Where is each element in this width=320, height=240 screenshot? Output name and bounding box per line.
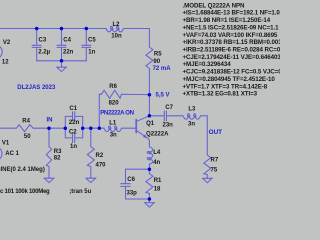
wire L1 to Q1 base bbox=[122, 127, 136, 129]
svg-text:470: 470 bbox=[96, 162, 107, 168]
svg-text:50: 50 bbox=[24, 134, 31, 140]
resistor R7 bbox=[204, 155, 211, 178]
svg-text:+CJE=2.179424E-11 VJE=0.646403: +CJE=2.179424E-11 VJE=0.6464035 bbox=[183, 54, 281, 61]
capacitor C1 (upper branch) bbox=[65, 116, 72, 128]
model directive text block bbox=[183, 2, 293, 97]
svg-text:L1: L1 bbox=[109, 120, 117, 126]
capacitor C6 with branch wires bbox=[126, 169, 150, 183]
resistor R1 bbox=[148, 169, 150, 173]
wire R4 to C1C2 block bbox=[33, 127, 65, 129]
svg-text:C5: C5 bbox=[88, 37, 96, 43]
wire L3 to OUT corner bbox=[201, 116, 208, 155]
svg-text:82: 82 bbox=[54, 155, 61, 161]
svg-text:R4: R4 bbox=[22, 119, 30, 125]
ground under R3 bbox=[44, 178, 54, 182]
svg-text:R6: R6 bbox=[109, 84, 117, 90]
svg-text:DL2JAS 2023: DL2JAS 2023 bbox=[17, 85, 56, 91]
capacitor C7 bbox=[149, 115, 163, 117]
svg-text:C2: C2 bbox=[69, 130, 77, 136]
svg-text:L4: L4 bbox=[153, 150, 161, 156]
svg-text:2.2µ: 2.2µ bbox=[38, 50, 50, 56]
resistor R5 bbox=[146, 47, 153, 69]
transistor Q1 bbox=[135, 120, 137, 133]
ground under R2 bbox=[86, 178, 96, 182]
svg-text:.ac dec 101 100k 100Meg: .ac dec 101 100k 100Meg bbox=[0, 189, 50, 195]
svg-text:10n: 10n bbox=[111, 33, 122, 39]
ground under R1/C6 bbox=[148, 199, 150, 202]
svg-text:R3: R3 bbox=[54, 149, 62, 155]
svg-text:+VTF=1.7 XTF=3 TR=4.142E-8: +VTF=1.7 XTF=3 TR=4.142E-8 bbox=[183, 83, 268, 90]
wire R5 to 5.5V node bbox=[148, 69, 150, 95]
wire C1C2 to L1 bbox=[83, 127, 104, 129]
resistor R4 bbox=[16, 125, 33, 132]
svg-text:75: 75 bbox=[211, 168, 218, 174]
capacitor C4 bbox=[61, 29, 63, 45]
svg-text:C1: C1 bbox=[69, 106, 77, 112]
inductor L4 (vertical) bbox=[148, 142, 150, 147]
svg-text:72 mA: 72 mA bbox=[153, 66, 172, 72]
svg-text:5,5 V: 5,5 V bbox=[156, 92, 170, 98]
svg-text:L2: L2 bbox=[113, 22, 121, 28]
wire rail to R5 corner bbox=[124, 29, 150, 48]
svg-text:IN: IN bbox=[47, 118, 53, 124]
svg-text:R5: R5 bbox=[154, 51, 162, 57]
svg-text:AC 1: AC 1 bbox=[5, 151, 19, 157]
svg-text:C7: C7 bbox=[165, 105, 173, 111]
svg-text:22n: 22n bbox=[63, 50, 74, 56]
svg-text:PN2222A ON: PN2222A ON bbox=[100, 110, 134, 117]
svg-text:V2: V2 bbox=[3, 40, 11, 46]
inductor L3 bbox=[183, 116, 201, 119]
voltage source V1 bbox=[0, 146, 2, 161]
resistor R2 bbox=[90, 128, 92, 146]
svg-text:18: 18 bbox=[154, 187, 161, 193]
svg-text:C3: C3 bbox=[39, 37, 47, 43]
capacitor C3 bbox=[36, 29, 38, 45]
wire caps bottom rail bbox=[37, 60, 87, 62]
svg-text:+XTB=1.32 EG=0.81 XTI=3: +XTB=1.32 EG=0.81 XTI=3 bbox=[183, 91, 258, 98]
svg-text:22n: 22n bbox=[69, 120, 80, 126]
inductor L1 bbox=[104, 128, 122, 131]
svg-text:R1: R1 bbox=[154, 178, 162, 184]
resistor R3 bbox=[48, 128, 50, 146]
svg-text:Q2222A: Q2222A bbox=[146, 132, 169, 138]
svg-text:1n: 1n bbox=[70, 144, 77, 150]
wire 5.5V node down to collector node bbox=[148, 95, 150, 116]
resistor R6 with riser wire bbox=[99, 94, 101, 128]
svg-text:1n: 1n bbox=[88, 50, 95, 56]
svg-text:+CJC=9.241838E-12 FC=0.5 VJC=0: +CJC=9.241838E-12 FC=0.5 VJC=0.45 bbox=[183, 69, 281, 76]
svg-text:L3: L3 bbox=[188, 107, 196, 113]
capacitor C5 bbox=[85, 29, 87, 45]
svg-text:33p: 33p bbox=[127, 190, 138, 196]
wire R6 to 5.5V node bbox=[121, 93, 149, 95]
svg-text:SINE(0 2.4 1Meg): SINE(0 2.4 1Meg) bbox=[0, 167, 45, 173]
svg-text:;tran 5u: ;tran 5u bbox=[69, 189, 91, 195]
ground under C4 bbox=[61, 61, 63, 67]
svg-text:V1: V1 bbox=[2, 141, 10, 147]
svg-text:4n: 4n bbox=[153, 160, 160, 166]
svg-text:+IRB=2.51189E-6 RE=0.0284 RC=0: +IRB=2.51189E-6 RE=0.0284 RC=0.105 bbox=[183, 47, 281, 54]
svg-text:90: 90 bbox=[153, 59, 160, 65]
wire input bbox=[0, 127, 16, 129]
voltage source V2 bbox=[0, 45, 2, 59]
svg-text:+VAF=74.03 VAR=100 IKF=0.8695: +VAF=74.03 VAR=100 IKF=0.8695 bbox=[183, 32, 278, 39]
ground under R7 bbox=[203, 178, 213, 182]
svg-text:23n: 23n bbox=[163, 122, 174, 128]
svg-text:3n: 3n bbox=[188, 122, 195, 128]
svg-text:R7: R7 bbox=[211, 158, 219, 164]
svg-text:C6: C6 bbox=[127, 177, 135, 183]
svg-text:+MJE=0.3296434: +MJE=0.3296434 bbox=[183, 61, 232, 68]
svg-text:OUT: OUT bbox=[209, 129, 223, 136]
emitter arrow of Q1 bbox=[143, 135, 147, 139]
inductor L2 bbox=[106, 29, 124, 32]
svg-text:+IS=1.68844E-13 BF=192.1 NF=1.: +IS=1.68844E-13 BF=192.1 NF=1.0261 bbox=[183, 10, 281, 17]
svg-text:+MJC=0.2804945 TF=2.4512E-10: +MJC=0.2804945 TF=2.4512E-10 bbox=[183, 76, 276, 83]
svg-text:C4: C4 bbox=[63, 37, 71, 43]
svg-text:820: 820 bbox=[109, 101, 120, 107]
svg-text:+IKR=0.37378 RB=1.15 RBM=0.003: +IKR=0.37378 RB=1.15 RBM=0.003 bbox=[183, 39, 281, 46]
svg-text:Q1: Q1 bbox=[146, 121, 155, 127]
wire top rail bbox=[0, 28, 106, 30]
svg-text:12: 12 bbox=[2, 60, 9, 66]
svg-text:R2: R2 bbox=[96, 153, 104, 159]
svg-text:+NE=1.5 ISC=2.51826E-09 NC=1.1: +NE=1.5 ISC=2.51826E-09 NC=1.1 bbox=[183, 24, 280, 31]
svg-text:+BR=1.98 NR=1 ISE=1.250E-14: +BR=1.98 NR=1 ISE=1.250E-14 bbox=[183, 17, 271, 24]
capacitor C2 (lower branch) bbox=[65, 128, 72, 138]
svg-text:.MODEL Q2222A NPN: .MODEL Q2222A NPN bbox=[183, 2, 246, 9]
svg-text:3n: 3n bbox=[110, 132, 117, 138]
